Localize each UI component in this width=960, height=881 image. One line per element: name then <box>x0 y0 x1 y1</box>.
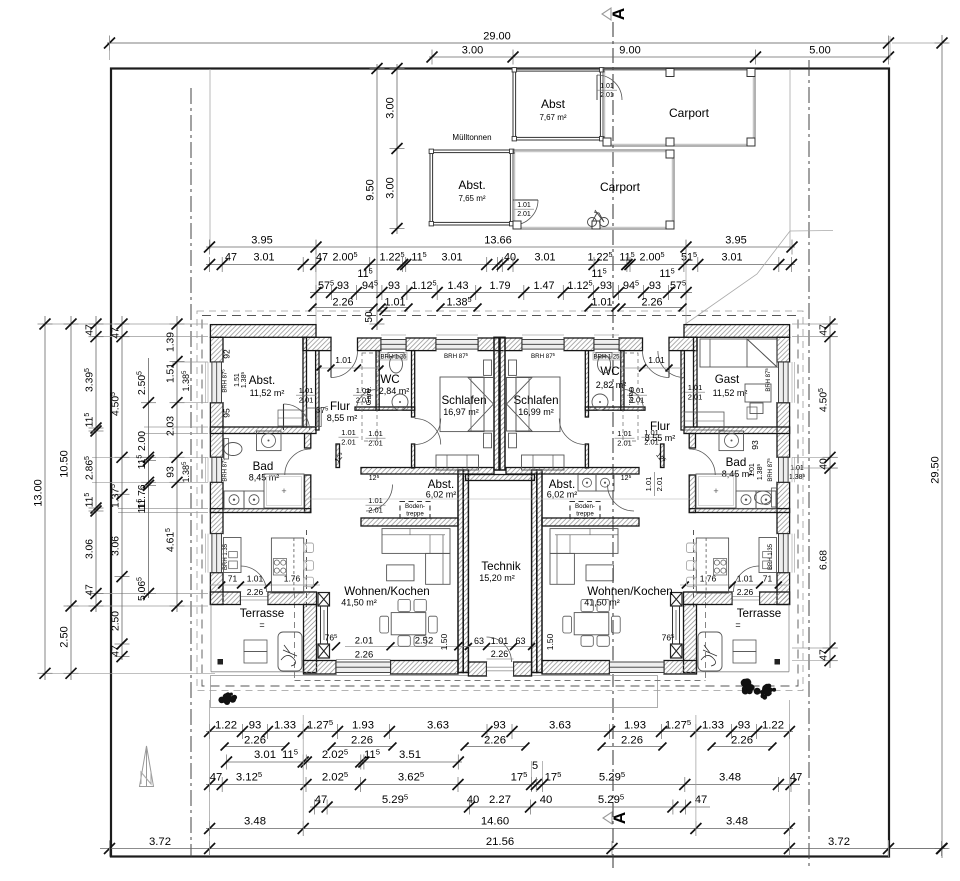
svg-text:Schlafen: Schlafen <box>441 394 486 407</box>
terrace door right <box>732 592 759 605</box>
svg-text:Gard.: Gard. <box>627 387 636 406</box>
dimension chain 3.00/9.00/5.00 <box>427 45 895 65</box>
svg-text:47: 47 <box>315 794 328 806</box>
setback dashed inner <box>202 316 798 687</box>
svg-text:3.06: 3.06 <box>111 536 122 556</box>
svg-text:2.50: 2.50 <box>59 626 71 647</box>
wall technik north <box>466 475 535 481</box>
svg-text:1.01: 1.01 <box>335 355 352 365</box>
dimension chain 3.95/13.66/3.95 <box>204 235 798 255</box>
label 93 bad right <box>750 440 760 450</box>
svg-text:3.63: 3.63 <box>427 720 449 732</box>
svg-text:11,52 m²: 11,52 m² <box>250 388 285 398</box>
label 76-5 left <box>325 633 338 643</box>
door Technik <box>487 662 514 676</box>
window WC right <box>594 338 619 351</box>
svg-text:95: 95 <box>222 408 232 418</box>
door Schlafen right arc <box>559 419 585 445</box>
shed Abst 7.67 <box>512 68 604 141</box>
svg-text:9.50: 9.50 <box>365 179 377 200</box>
svg-text:3.00: 3.00 <box>462 45 483 57</box>
svg-text:2.01: 2.01 <box>341 438 356 447</box>
svg-text:Boden-: Boden- <box>405 503 425 510</box>
label rear window left <box>332 636 470 661</box>
svg-text:1.01: 1.01 <box>600 83 614 90</box>
carport bottom <box>513 150 674 229</box>
window Wohnen left <box>336 661 391 675</box>
label 12-5 bR <box>621 474 632 482</box>
svg-text:Technik: Technik <box>481 560 521 573</box>
kitchen right <box>687 538 777 594</box>
label door Schlafen left <box>366 429 386 448</box>
party wall lower left b <box>463 470 468 673</box>
wall Bad west lower R <box>689 475 695 513</box>
wall Abst bottom <box>210 427 316 434</box>
svg-text:47: 47 <box>85 584 96 596</box>
svg-text:16,97 m²: 16,97 m² <box>443 407 479 417</box>
front wall mid R2 <box>619 338 643 351</box>
wall Gast bottom <box>684 427 790 434</box>
vertical chain 13.00 <box>33 316 53 680</box>
svg-text:47: 47 <box>210 772 223 784</box>
svg-text:63: 63 <box>474 636 484 646</box>
label WC left <box>379 373 410 396</box>
svg-text:Bad: Bad <box>253 460 274 473</box>
bicycle sketch <box>588 210 609 227</box>
rear ext wall f <box>664 661 697 675</box>
door Abst6 left <box>366 485 393 512</box>
bodentreppe right <box>570 502 600 519</box>
door Bad left <box>285 449 311 475</box>
kitchen overhang dashed right <box>693 530 695 611</box>
svg-text:WC: WC <box>380 373 399 386</box>
rear wall left a <box>210 592 240 605</box>
svg-text:1.01: 1.01 <box>341 428 356 437</box>
svg-text:47: 47 <box>819 324 830 336</box>
sub labels 1.38-5 left <box>181 370 191 483</box>
door Gast right <box>658 351 685 378</box>
left wall seg2 <box>210 403 223 458</box>
svg-text:2.00: 2.00 <box>137 431 148 451</box>
bottom chain row1 <box>204 718 795 739</box>
label Bad left <box>249 460 280 483</box>
dim 50 wall <box>364 307 390 323</box>
svg-text:2.50: 2.50 <box>111 611 122 631</box>
svg-text:7,67 m²: 7,67 m² <box>539 113 566 122</box>
label 37-5 <box>316 405 329 415</box>
front wall mid center <box>478 338 522 351</box>
door Schlafen left arc <box>415 419 441 445</box>
svg-text:1.50: 1.50 <box>439 633 449 650</box>
toilet WC left <box>388 353 404 374</box>
bed Schlafen right <box>507 360 561 448</box>
label door Bad right <box>642 428 662 447</box>
entrance door left <box>331 351 358 378</box>
svg-text:21.56: 21.56 <box>486 836 514 848</box>
svg-text:40: 40 <box>819 458 830 470</box>
svg-text:1.50: 1.50 <box>545 633 555 650</box>
property boundary <box>111 69 889 857</box>
svg-text:2.01: 2.01 <box>368 506 383 515</box>
label door Bad left <box>339 428 359 447</box>
label door Gast <box>685 383 705 402</box>
svg-text:BRH 875: BRH 875 <box>766 458 774 482</box>
door technik <box>487 637 512 662</box>
label BRH bad left wall <box>221 458 229 482</box>
desk Gast <box>745 384 771 419</box>
vertical chain 3.00/3.00 top <box>385 63 405 234</box>
label Wohnen left <box>341 585 430 608</box>
svg-text:3.72: 3.72 <box>149 836 171 848</box>
label 1.51/1.38-5 wall <box>234 372 248 389</box>
svg-text:Carport: Carport <box>600 180 641 194</box>
tree right <box>741 678 776 699</box>
svg-text:8,55 m²: 8,55 m² <box>327 413 358 423</box>
svg-text:Gast: Gast <box>715 373 740 386</box>
svg-text:47: 47 <box>111 327 122 339</box>
rear wall right a <box>760 592 790 605</box>
svg-text:63: 63 <box>515 636 525 646</box>
left wall seg4 <box>210 573 223 605</box>
svg-text:11,52 m²: 11,52 m² <box>713 388 748 398</box>
right wall seg1 <box>777 337 790 362</box>
window sills front <box>381 334 619 336</box>
svg-text:47: 47 <box>819 649 830 661</box>
toilet Bad right <box>755 488 777 507</box>
svg-text:Abst: Abst <box>541 97 566 111</box>
wall Abst6 south <box>361 518 458 526</box>
label Abst 7.67 <box>539 97 566 122</box>
terrace lounger right <box>698 632 722 671</box>
svg-text:Abst.: Abst. <box>458 178 485 192</box>
terrace tables left <box>244 640 267 663</box>
svg-text:1.01: 1.01 <box>644 477 653 492</box>
window kitchen left wall <box>210 534 223 573</box>
window Schlafen right <box>522 338 564 351</box>
window sills left wall <box>206 362 209 573</box>
label 76-5 right <box>662 633 675 643</box>
svg-text:7,65 m²: 7,65 m² <box>458 194 485 203</box>
svg-text:2,84 m²: 2,84 m² <box>379 386 410 396</box>
svg-text:29.50: 29.50 <box>930 456 942 484</box>
extension lines left <box>42 324 215 673</box>
label 1.01 1.38-5 bad right <box>749 463 764 480</box>
svg-text:1.39: 1.39 <box>166 332 177 352</box>
svg-text:1.01: 1.01 <box>648 355 665 365</box>
svg-text:3.01: 3.01 <box>534 252 555 264</box>
dresser Schlafen right <box>522 455 565 470</box>
svg-text:1.01: 1.01 <box>368 429 383 438</box>
interior dim line y499 <box>306 498 694 500</box>
sink WC right <box>592 394 608 410</box>
bottom chain row6 <box>204 816 795 837</box>
vertical chain right 47/4.50-5 <box>818 316 837 668</box>
right wall seg3 <box>777 482 790 533</box>
setback dashed outer <box>197 311 803 691</box>
wall WC west <box>376 351 379 411</box>
svg-text:2.27: 2.27 <box>489 794 511 806</box>
svg-text:2.26: 2.26 <box>332 297 353 309</box>
svg-text:2.26: 2.26 <box>737 587 754 597</box>
svg-text:2.26: 2.26 <box>351 735 373 747</box>
terrace tables right <box>733 640 756 663</box>
couch right <box>550 529 618 585</box>
left wall seg1 <box>210 337 223 362</box>
wall WC west R / Schlafen east <box>585 351 588 417</box>
coffee table right <box>586 565 613 581</box>
svg-text:1.33: 1.33 <box>274 720 296 732</box>
svg-text:BRH 875: BRH 875 <box>444 352 469 360</box>
svg-text:2.52: 2.52 <box>415 636 434 647</box>
svg-text:50: 50 <box>364 311 375 323</box>
label 92 <box>222 349 232 359</box>
label BRH bad right wall <box>766 458 774 482</box>
door label shed top <box>597 83 617 99</box>
wall Schlafen south <box>361 468 494 475</box>
svg-text:40: 40 <box>540 794 553 806</box>
svg-text:Wohnen/Kochen: Wohnen/Kochen <box>344 585 430 598</box>
right wall seg2 <box>777 403 790 458</box>
svg-text:Terrasse: Terrasse <box>240 607 284 620</box>
rear ext wall a <box>304 661 337 675</box>
boundary dash-dot right <box>808 60 810 868</box>
svg-text:Boden-: Boden- <box>575 503 595 510</box>
label Bad right <box>722 456 753 479</box>
svg-text:41,50 m²: 41,50 m² <box>341 598 377 608</box>
label door WC left <box>353 386 373 405</box>
door Schlafen left <box>415 419 441 445</box>
vertical chain 29.50 <box>930 35 950 858</box>
svg-text:47: 47 <box>695 794 708 806</box>
svg-text:Abst.: Abst. <box>249 374 275 387</box>
label Gast <box>713 373 748 398</box>
sideboard flur left <box>307 408 321 427</box>
svg-text:16,99 m²: 16,99 m² <box>518 407 554 417</box>
svg-text:1.01: 1.01 <box>299 386 314 395</box>
svg-text:Flur: Flur <box>330 400 350 413</box>
label Terrasse left <box>240 607 284 630</box>
svg-text:1.01: 1.01 <box>491 636 509 646</box>
shed Abst 7.65 <box>429 149 514 226</box>
svg-text:Mülltonnen: Mülltonnen <box>452 133 491 142</box>
dresser Schlafen left <box>436 455 479 470</box>
label entrance dim right <box>617 355 684 372</box>
label Wohnen right <box>584 585 673 608</box>
label door technik <box>464 636 536 659</box>
label Flur right <box>645 420 676 443</box>
svg-text:BRH 875: BRH 875 <box>221 369 229 393</box>
svg-text:2.26: 2.26 <box>641 297 662 309</box>
extension lines bottom <box>110 700 889 857</box>
wall WC east / Schlafen west <box>412 351 415 417</box>
door rear left <box>241 566 267 592</box>
svg-text:2.01: 2.01 <box>617 439 632 448</box>
svg-text:1.01: 1.01 <box>591 297 612 309</box>
vertical chain 10.50/2.50 <box>59 316 79 680</box>
svg-text:3.48: 3.48 <box>244 816 266 828</box>
party wall lower left <box>458 470 463 673</box>
svg-text:1.01: 1.01 <box>737 574 754 584</box>
door WC right <box>624 390 644 410</box>
svg-text:93: 93 <box>337 280 349 292</box>
wall entrance side R <box>681 351 684 430</box>
label BRH WC left <box>380 353 407 361</box>
wall WC east R <box>621 351 624 411</box>
svg-text:1.22: 1.22 <box>215 720 237 732</box>
label door Abst11 <box>296 386 316 405</box>
wall Schlafen south R <box>506 468 639 475</box>
svg-text:2.01: 2.01 <box>517 211 531 218</box>
post left bottom <box>318 644 330 658</box>
svg-text:2.01: 2.01 <box>655 477 664 492</box>
svg-text:=: = <box>259 620 264 630</box>
window Wohnen right <box>610 661 665 675</box>
bottom chain row3 <box>221 747 464 769</box>
door Abst6 right <box>608 485 635 512</box>
party wall upper <box>494 337 505 470</box>
svg-text:29.00: 29.00 <box>483 31 511 43</box>
sink Bad left <box>257 431 282 451</box>
wall Bad east <box>305 434 311 449</box>
label kitchen dim left <box>210 574 320 598</box>
label carport bottom <box>600 180 641 194</box>
svg-text:3.01: 3.01 <box>441 252 462 264</box>
dining table left <box>380 599 437 646</box>
label BRH gast right wall <box>764 368 772 392</box>
label kitchen dim right <box>680 574 790 598</box>
svg-text:treppe: treppe <box>406 511 424 518</box>
roof overhang dashed <box>295 592 706 681</box>
svg-text:1.93: 1.93 <box>624 720 646 732</box>
label door Abst6 left <box>366 496 386 515</box>
sub labels 1.01/1.38-5 right <box>789 465 806 481</box>
svg-text:1.22: 1.22 <box>762 720 784 732</box>
label door Abst6 right <box>644 472 664 496</box>
extension west wall <box>304 605 317 673</box>
svg-text:Gard.: Gard. <box>364 387 373 406</box>
couch left <box>382 529 450 585</box>
svg-text:93: 93 <box>738 720 751 732</box>
label Flur left <box>327 400 358 423</box>
svg-text:2.26: 2.26 <box>731 735 753 747</box>
wall Bad west R <box>689 434 695 449</box>
terrace lounger left <box>278 632 302 671</box>
svg-text:BRH 875: BRH 875 <box>221 458 229 482</box>
svg-text:2.26: 2.26 <box>484 735 506 747</box>
terrace corner mark right <box>775 660 780 665</box>
wardrobe Gard right <box>623 353 638 441</box>
vertical chain 47/3.39-5 row <box>84 316 103 612</box>
window Bad left wall <box>210 457 223 482</box>
front wall Gast section <box>684 325 790 338</box>
svg-text:3.51: 3.51 <box>399 749 421 761</box>
svg-text:1.33: 1.33 <box>702 720 724 732</box>
left wall seg3 <box>210 482 223 533</box>
svg-text:1.01: 1.01 <box>368 496 383 505</box>
rear wall left b <box>268 592 317 605</box>
section marker A top <box>602 8 628 20</box>
bottom chain row5 <box>309 792 710 814</box>
svg-text:13.00: 13.00 <box>33 479 45 507</box>
front wall Abst section <box>210 325 316 338</box>
front wall mid L1 <box>358 338 382 351</box>
svg-text:6.68: 6.68 <box>819 550 830 570</box>
dimension chain 29.00 <box>104 31 894 51</box>
window Gast right wall <box>777 362 790 403</box>
svg-text:2.26: 2.26 <box>491 649 509 659</box>
vertical chain 4.50-5 row <box>110 316 129 662</box>
svg-text:3.72: 3.72 <box>828 836 850 848</box>
svg-text:40: 40 <box>504 252 516 264</box>
window Bad right wall <box>777 457 790 482</box>
svg-text:6,02 m²: 6,02 m² <box>426 490 457 500</box>
toilet WC right <box>596 353 612 374</box>
dimension chain 57-5/93 row <box>310 279 692 301</box>
label BRH kitchen right wall <box>768 543 774 570</box>
boundary dash-dot left <box>190 88 192 857</box>
right wall seg4 <box>777 573 790 605</box>
svg-text:1.51: 1.51 <box>166 363 177 383</box>
kitchen left <box>224 538 314 594</box>
svg-text:3.01: 3.01 <box>253 252 274 264</box>
svg-text:5: 5 <box>532 760 538 772</box>
rear wall right b <box>684 592 733 605</box>
svg-text:3.63: 3.63 <box>549 720 571 732</box>
bodentreppe left <box>400 502 430 519</box>
label 12-5 a <box>333 451 346 465</box>
svg-text:47: 47 <box>790 772 803 784</box>
svg-text:3.00: 3.00 <box>385 177 397 198</box>
wardrobe Gard left <box>362 353 377 441</box>
kitchen overhang dashed left <box>306 530 308 611</box>
wall Abst6 south R <box>542 518 639 526</box>
section marker A bottom <box>603 812 629 824</box>
svg-text:3.01: 3.01 <box>254 749 276 761</box>
north arrow <box>140 746 154 787</box>
svg-text:93: 93 <box>600 280 612 292</box>
svg-text:15,20 m²: 15,20 m² <box>479 573 515 583</box>
toilet Bad left <box>224 439 242 460</box>
label Abst6 right <box>547 478 578 500</box>
svg-text:5.00: 5.00 <box>809 45 830 57</box>
extension east wall <box>684 605 697 673</box>
svg-text:+: + <box>713 486 718 496</box>
svg-text:Terrasse: Terrasse <box>737 607 781 620</box>
carport top <box>603 69 755 147</box>
svg-text:2,82 m²: 2,82 m² <box>596 380 627 390</box>
svg-text:Schlafen: Schlafen <box>513 394 558 407</box>
door WC left <box>357 390 377 410</box>
label carport top <box>669 106 710 120</box>
label Abst6 left <box>426 478 457 500</box>
shower Bad left <box>264 474 304 508</box>
label BRH kitchen left wall <box>223 543 229 570</box>
dimension chain 47/3.01 row <box>204 250 797 272</box>
label Schlafen right <box>513 394 558 417</box>
wall stub flur <box>336 444 340 468</box>
label 12-5 aR <box>654 451 667 465</box>
post right top <box>671 593 683 607</box>
svg-text:8,55 m²: 8,55 m² <box>645 433 676 443</box>
label BRH WC right <box>593 353 620 361</box>
extension lines right <box>792 43 948 849</box>
post left top <box>318 593 330 607</box>
party wall lower right <box>532 470 542 673</box>
rear ext wall e <box>542 661 610 675</box>
section line A vertical (dash-dot) <box>612 22 614 868</box>
front wall step left <box>303 337 331 350</box>
svg-text:71: 71 <box>228 574 238 584</box>
